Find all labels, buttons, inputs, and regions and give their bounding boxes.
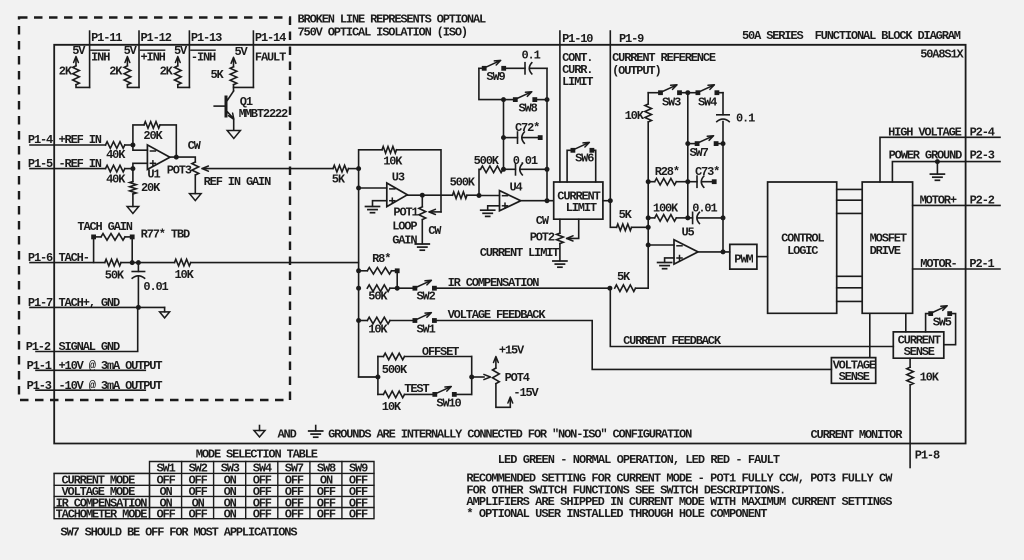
- transistor Q1 MMBT2222: [214, 87, 288, 129]
- op-amp U3: [387, 171, 408, 207]
- svg-text:SW7 SHOULD BE OFF FOR MOST APP: SW7 SHOULD BE OFF FOR MOST APPLICATIONS: [60, 526, 297, 540]
- signal label -INH for P1-13: [191, 50, 216, 64]
- label CURRENT REFERENCE (OUTPUT): [612, 51, 716, 78]
- note grounds internally connected: [328, 428, 692, 442]
- POT2 wiper arrow: [567, 219, 579, 241]
- potentiometer POT4 offset: [493, 368, 530, 385]
- resistor R8* (optional): [356, 252, 399, 288]
- ground (3-bar) at U5 +input: [658, 263, 672, 269]
- table header SW1..SW9: [157, 461, 369, 475]
- svg-text:10K: 10K: [175, 268, 195, 282]
- svg-text:P1-8: P1-8: [915, 448, 940, 462]
- dashed optical isolation boundary box: [19, 18, 290, 401]
- wire CURRENT FEEDBACK net: [610, 288, 893, 348]
- svg-text:VOLTAGE FEEDBACK: VOLTAGE FEEDBACK: [448, 308, 547, 322]
- signal label +INH for P1-12: [141, 50, 166, 64]
- svg-text:R77* TBD: R77* TBD: [141, 228, 190, 242]
- wire U3 output node: [407, 193, 452, 198]
- signal label FAULT for P1-14: [255, 51, 286, 65]
- connector pin P1-3 -10V output: [27, 379, 163, 393]
- svg-text:-INH: -INH: [191, 51, 216, 65]
- +15V supply arrow: [494, 344, 526, 369]
- svg-text:SW9: SW9: [486, 70, 505, 84]
- op-amp U5: [674, 226, 698, 265]
- svg-text:2K: 2K: [109, 65, 123, 79]
- svg-text:GROUNDS ARE INTERNALLY CONNECT: GROUNDS ARE INTERNALLY CONNECTED FOR "NO…: [328, 428, 692, 442]
- svg-text:SW4: SW4: [698, 96, 717, 110]
- resistor 500K (U3 to U4): [450, 176, 479, 199]
- node U5 inverting input: [646, 225, 674, 248]
- svg-text:10K: 10K: [920, 371, 940, 385]
- wire -REF IN row: [30, 168, 106, 170]
- svg-text:10K: 10K: [368, 322, 388, 336]
- svg-text:P1-9: P1-9: [619, 32, 644, 46]
- svg-text:P2-2: P2-2: [970, 194, 995, 208]
- svg-text:TACHOMETER MODE: TACHOMETER MODE: [56, 507, 148, 521]
- resistor 20K to ground at U1 +input: [130, 169, 162, 207]
- svg-text:AND: AND: [278, 428, 297, 442]
- potentiometer POT3 REF IN GAIN: [167, 139, 202, 178]
- svg-text:TEST: TEST: [404, 382, 429, 396]
- svg-text:SW10: SW10: [436, 397, 461, 411]
- wire mosfet to voltage sense: [869, 313, 871, 357]
- resistor 50K (tach): [105, 259, 175, 282]
- table row TACHOMETER MODE: [56, 507, 368, 521]
- svg-text:C73*: C73*: [695, 165, 719, 179]
- label REF IN GAIN: [204, 175, 272, 189]
- switch SW3: [648, 85, 688, 110]
- svg-text:5K: 5K: [211, 68, 225, 82]
- connector pin P1-2 SIGNAL GND label: [26, 340, 120, 354]
- svg-text:P2-4: P2-4: [970, 126, 995, 140]
- connector pin P1-14 stub: [253, 31, 286, 87]
- bus wires control logic to mosfet drive: [837, 189, 863, 301]
- wire POT2 to ground: [559, 244, 561, 261]
- svg-text:U3: U3: [392, 171, 405, 185]
- switch SW8: [501, 92, 547, 116]
- svg-text:CW: CW: [428, 224, 442, 238]
- resistor 40K (-REF): [106, 165, 133, 186]
- ground (triangle) below Q1: [227, 131, 240, 139]
- svg-text:POT2: POT2: [530, 231, 555, 245]
- ground (3-bar) below POT2: [553, 261, 567, 267]
- wire U5 +input to ground: [665, 258, 674, 262]
- svg-text:500K: 500K: [382, 363, 408, 377]
- svg-text:* OPTIONAL USER INSTALLED THRO: * OPTIONAL USER INSTALLED THROUGH HOLE C…: [466, 507, 767, 521]
- wire U3 inverting input: [356, 169, 387, 191]
- svg-text:+INH: +INH: [141, 51, 166, 65]
- svg-text:CURRENT REFERENCE: CURRENT REFERENCE: [612, 51, 716, 65]
- offset loop right side: [457, 357, 475, 395]
- POT1 wiper arrow: [429, 209, 441, 214]
- resistor 500K (U4 fb): [474, 154, 503, 196]
- resistor 10K (U5 column): [625, 93, 652, 245]
- svg-text:IR COMPENSATION: IR COMPENSATION: [448, 276, 540, 290]
- svg-text:P1-14: P1-14: [255, 31, 286, 45]
- 5V pull-up arrow for P1-12: [124, 44, 138, 66]
- node at U1 non-inverting input: [130, 163, 147, 171]
- svg-text:0.01: 0.01: [143, 280, 168, 294]
- connector pin P1-13 stub: [189, 31, 222, 87]
- ground (3-bar) below POT1: [415, 244, 429, 250]
- block PWM: [730, 244, 757, 269]
- svg-text:MODE SELECTION TABLE: MODE SELECTION TABLE: [196, 448, 318, 462]
- wire current monitor to P1-8: [811, 385, 940, 468]
- svg-text:(OUTPUT): (OUTPUT): [612, 64, 660, 78]
- svg-text:P1-12: P1-12: [141, 31, 172, 45]
- resistor 40K (+REF): [106, 142, 133, 162]
- capacitor C72* (optional): [501, 121, 543, 143]
- potentiometer POT2 CURRENT LIMIT: [480, 214, 564, 260]
- resistor 5K pull-up for P1-14: [211, 67, 254, 88]
- svg-text:20K: 20K: [143, 129, 163, 143]
- svg-text:CURRENT FEEDBACK: CURRENT FEEDBACK: [623, 334, 722, 348]
- svg-text:LIMIT: LIMIT: [562, 75, 593, 89]
- wire VOLTAGE FEEDBACK net: [437, 308, 832, 369]
- svg-text:HIGH VOLTAGE: HIGH VOLTAGE: [888, 126, 962, 140]
- svg-text:SW7: SW7: [690, 146, 709, 160]
- op-amp U4: [500, 181, 523, 211]
- svg-text:SW1: SW1: [417, 322, 436, 336]
- svg-text:MOTOR+: MOTOR+: [920, 194, 957, 208]
- wire to POT4 wiper with arrow: [472, 374, 491, 379]
- svg-text:POWER GROUND: POWER GROUND: [889, 149, 963, 163]
- wire IR COMPENSATION net: [437, 276, 610, 290]
- ground (triangle) below 20K: [127, 207, 139, 214]
- wire MOTOR+ P2-2: [913, 194, 1000, 208]
- block CURRENT LIMIT: [554, 182, 603, 219]
- svg-text:SW5: SW5: [933, 315, 952, 329]
- table row IR COMPENSATION: [56, 496, 368, 510]
- svg-text:CURRENT LIMIT: CURRENT LIMIT: [480, 246, 560, 260]
- svg-text:U5: U5: [682, 226, 695, 240]
- 5V pull-up arrow for P1-14: [231, 45, 248, 67]
- svg-text:5V: 5V: [72, 44, 86, 58]
- svg-text:+15V: +15V: [499, 344, 525, 358]
- resistor 2K pull-up for P1-11: [59, 65, 90, 88]
- block CURRENT SENSE: [893, 332, 944, 359]
- wire POT3 bottom to ground: [194, 175, 196, 194]
- POT3 wiper arrow and wire to 5K: [202, 166, 333, 171]
- wire SW9 left drop: [479, 68, 504, 99]
- svg-text:INH: INH: [91, 51, 110, 65]
- svg-text:C72*: C72*: [515, 121, 539, 135]
- svg-text:POT1: POT1: [393, 205, 418, 219]
- wire PWM to control logic: [757, 256, 768, 258]
- wire summing node column: [359, 188, 378, 377]
- connector pin P1-7 TACH+, GND label: [28, 296, 120, 310]
- block VOLTAGE SENSE: [831, 358, 876, 384]
- svg-text:U4: U4: [510, 181, 523, 195]
- ground symbol (3-bar) in note: [309, 426, 323, 438]
- svg-text:LOGIC: LOGIC: [787, 244, 818, 258]
- svg-text:SENSE: SENSE: [904, 345, 935, 359]
- svg-text:P2-3: P2-3: [970, 149, 995, 163]
- table row VOLTAGE MODE: [62, 485, 369, 499]
- -15V supply arrow: [496, 384, 540, 408]
- capacitor 0.1 (U4 fb): [506, 49, 547, 74]
- wire U4 output to current limit block: [521, 200, 554, 202]
- capacitor 0.01 (U5 fb): [688, 202, 726, 224]
- label CONT. CURR. LIMIT: [562, 51, 593, 89]
- part number 50A8S1X: [920, 48, 964, 62]
- svg-text:5K: 5K: [619, 208, 633, 222]
- svg-text:5K: 5K: [617, 270, 631, 284]
- wire TACH- row: [30, 262, 105, 264]
- svg-text:P1-10: P1-10: [562, 32, 593, 46]
- wire POT1 bottom to ground: [421, 220, 423, 244]
- ground (triangle) below POT3: [190, 194, 202, 201]
- resistor 10K (test): [378, 382, 435, 414]
- wire mosfet to current sense: [905, 313, 907, 332]
- note optional component: [466, 507, 767, 521]
- svg-text:10K: 10K: [382, 400, 402, 414]
- capacitor 0.01 (tach filter): [132, 263, 168, 308]
- connector pin P1-12 stub: [139, 31, 172, 87]
- svg-text:50K: 50K: [105, 269, 125, 283]
- svg-text:P2-1: P2-1: [969, 257, 994, 271]
- svg-text:2K: 2K: [59, 65, 73, 79]
- ground (triangle) on TACH+ row: [160, 307, 170, 318]
- wire U1 output: [170, 155, 195, 162]
- note SW7 should be off: [60, 526, 297, 540]
- svg-text:LIMIT: LIMIT: [566, 201, 597, 215]
- wire U4 inverting input: [477, 193, 500, 198]
- resistor 2K pull-up for P1-12: [109, 65, 139, 88]
- wire U3 +input to ground: [373, 201, 387, 207]
- svg-text:20K: 20K: [141, 181, 161, 195]
- svg-text:SW2: SW2: [417, 289, 436, 303]
- wire TACH+ row: [30, 305, 165, 310]
- resistor 5K (current feedback): [607, 270, 648, 292]
- svg-text:OFF: OFF: [189, 507, 208, 521]
- resistor 10K (voltage feedback): [356, 317, 415, 336]
- connector pin P1-1 +10V output: [27, 359, 163, 373]
- svg-text:SW6: SW6: [575, 152, 594, 166]
- svg-text:SENSE: SENSE: [839, 370, 870, 384]
- ground (3-bar) on power ground: [930, 162, 944, 181]
- svg-text:ON: ON: [224, 507, 237, 521]
- wire U4 fb right column: [545, 68, 550, 203]
- svg-text:MMBT2222: MMBT2222: [239, 107, 288, 121]
- svg-text:P1-11: P1-11: [91, 31, 122, 45]
- svg-text:OFF: OFF: [349, 507, 368, 521]
- wire to IR comp 5K: [647, 245, 649, 288]
- svg-text:0.01: 0.01: [513, 154, 538, 168]
- resistor 5K (U3 input): [332, 165, 359, 186]
- schematic frame border: [54, 45, 965, 444]
- note LED green/red: [498, 453, 780, 467]
- svg-text:OFF: OFF: [253, 507, 272, 521]
- ground symbol (triangle) in note: [254, 426, 265, 438]
- svg-text:5V: 5V: [235, 45, 249, 59]
- switch SW6: [567, 142, 596, 182]
- svg-text:-15V: -15V: [513, 386, 539, 400]
- svg-text:LOOP: LOOP: [392, 219, 417, 233]
- switch SW7: [685, 136, 725, 160]
- svg-text:0.1: 0.1: [736, 112, 755, 126]
- svg-text:0.1: 0.1: [522, 49, 541, 63]
- svg-text:50K: 50K: [368, 289, 388, 303]
- svg-text:FAULT: FAULT: [255, 51, 286, 65]
- svg-text:SW8: SW8: [519, 102, 538, 116]
- svg-text:PWM: PWM: [734, 253, 753, 267]
- connector pin P1-10 column: [560, 31, 593, 182]
- connector pin P1-9 column: [608, 31, 644, 203]
- wire MOTOR- P2-1: [913, 257, 1000, 271]
- svg-text:100K: 100K: [653, 202, 679, 216]
- 5V pull-up arrow for P1-13: [174, 44, 188, 66]
- wire SIGNAL GND row: [36, 307, 138, 351]
- svg-text:OFF: OFF: [317, 507, 336, 521]
- svg-text:P1-13: P1-13: [191, 31, 222, 45]
- wire HIGH VOLTAGE P2-4: [880, 126, 1000, 183]
- resistor R28* (optional): [646, 165, 691, 185]
- op-amp U1: [147, 145, 170, 182]
- note AND: [278, 428, 297, 442]
- table grid: [54, 462, 374, 519]
- svg-text:REF IN GAIN: REF IN GAIN: [204, 175, 272, 189]
- switch SW5: [926, 306, 956, 345]
- block MOSFET DRIVE: [862, 182, 912, 313]
- svg-text:DRIVE: DRIVE: [870, 244, 901, 258]
- svg-text:2K: 2K: [160, 65, 174, 79]
- svg-text:MOTOR-: MOTOR-: [920, 257, 956, 271]
- wire U4 fb left column: [503, 100, 505, 170]
- switch SW10: [432, 387, 461, 411]
- svg-text:LED GREEN - NORMAL OPERATION,: LED GREEN - NORMAL OPERATION, LED RED - …: [498, 453, 780, 467]
- wire +REF IN row: [30, 144, 106, 146]
- label TACH GAIN: [77, 220, 132, 234]
- svg-text:10K: 10K: [383, 155, 403, 169]
- svg-text:CW: CW: [188, 139, 202, 153]
- svg-text:OFF: OFF: [157, 507, 176, 521]
- connector pin P1-11 stub: [90, 31, 123, 87]
- wire U5 middle column: [687, 93, 689, 218]
- title 50A SERIES FUNCTIONAL BLOCK DIAGRAM: [742, 29, 961, 43]
- wire U4 +input to ground: [488, 206, 500, 210]
- node U3 input column top: [356, 166, 361, 171]
- resistor 50K (IR comp): [356, 285, 415, 304]
- 5V pull-up arrow for P1-11: [72, 44, 86, 66]
- switch SW4: [685, 85, 723, 110]
- wire current limit output: [603, 200, 610, 202]
- svg-text:500K: 500K: [474, 154, 500, 168]
- resistor 20K feedback U1: [133, 122, 176, 158]
- potentiometer POT1 LOOP GAIN: [392, 195, 442, 247]
- resistor 100K (U5): [646, 202, 691, 222]
- wire POWER GROUND P2-3: [889, 149, 1000, 183]
- capacitor C73* (optional): [688, 165, 719, 188]
- wire U5 output to PWM: [698, 249, 730, 254]
- svg-text:40K: 40K: [106, 148, 126, 162]
- svg-text:5V: 5V: [174, 44, 188, 58]
- connector pin P1-4 +REF IN label: [28, 133, 102, 147]
- switch SW9: [479, 60, 506, 84]
- resistor 500K (offset): [378, 353, 472, 377]
- connector pin P1-5 -REF IN label: [28, 157, 102, 171]
- svg-text:CW: CW: [536, 214, 550, 228]
- table MODE SELECTION TABLE title: [196, 448, 318, 462]
- signal label INH for P1-11: [91, 50, 110, 64]
- svg-text:OFF: OFF: [285, 507, 304, 521]
- resistor 5K (current reference): [610, 201, 648, 231]
- svg-text:40K: 40K: [106, 173, 126, 187]
- resistor 10K (tach): [175, 259, 359, 282]
- connector pin P1-6 TACH- label: [28, 251, 89, 265]
- svg-text:TACH GAIN: TACH GAIN: [77, 220, 132, 234]
- resistor 10K (current monitor): [907, 358, 940, 385]
- svg-text:POT3: POT3: [167, 164, 192, 178]
- svg-text:0.01: 0.01: [692, 202, 717, 216]
- switch SW2: [395, 280, 437, 303]
- junction dots tach node: [130, 260, 141, 265]
- offset loop left side: [359, 357, 381, 395]
- table row CURRENT MODE: [62, 473, 369, 487]
- svg-text:POT4: POT4: [505, 371, 530, 385]
- block CONTROL LOGIC: [768, 182, 837, 313]
- ground (3-bar) at U4 +input: [481, 210, 495, 216]
- capacitor 0.01 (U4 fb): [501, 154, 547, 175]
- svg-text:SW3: SW3: [662, 96, 681, 110]
- resistor R77* TBD (tach gain bypass): [91, 228, 190, 263]
- node at U1 inverting input: [130, 143, 147, 151]
- svg-text:750V OPTICAL ISOLATION (ISO): 750V OPTICAL ISOLATION (ISO): [298, 25, 467, 39]
- svg-text:10K: 10K: [625, 109, 645, 123]
- capacitor 0.1 (U5 fb column): [717, 93, 755, 252]
- svg-text:R28*: R28*: [655, 165, 679, 179]
- note recommended settings: [466, 472, 893, 510]
- resistor 2K pull-up for P1-13: [160, 65, 190, 88]
- label OFFSET: [422, 345, 459, 359]
- svg-text:50A8S1X: 50A8S1X: [920, 48, 964, 62]
- svg-text:500K: 500K: [450, 176, 476, 190]
- svg-text:R8*: R8*: [372, 252, 390, 266]
- svg-text:U1: U1: [147, 168, 160, 182]
- svg-text:BROKEN LINE REPRESENTS OPTIONA: BROKEN LINE REPRESENTS OPTIONAL: [298, 13, 487, 27]
- svg-text:5K: 5K: [332, 173, 346, 187]
- resistor 10K feedback U3: [359, 147, 441, 212]
- ground (3-bar) at U3 +input: [366, 207, 380, 213]
- svg-text:5V: 5V: [124, 44, 138, 58]
- switch SW1: [413, 313, 437, 337]
- svg-text:GAIN: GAIN: [392, 233, 417, 247]
- svg-text:50A SERIES FUNCTIONAL BLOCK D: 50A SERIES FUNCTIONAL BLOCK DIAGRAM: [742, 29, 961, 43]
- svg-text:CURRENT MONITOR: CURRENT MONITOR: [811, 428, 904, 442]
- note: broken line represents optional isolation: [298, 13, 487, 40]
